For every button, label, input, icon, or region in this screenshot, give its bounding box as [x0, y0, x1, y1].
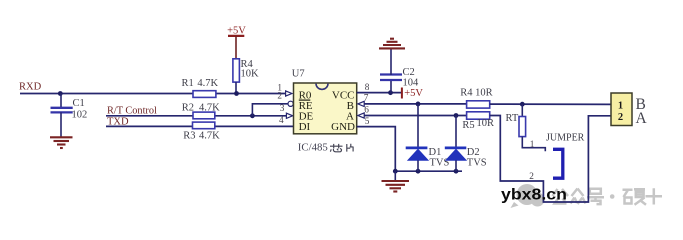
ground above C2 flipped [379, 39, 405, 49]
connector pin number 1 [618, 101, 623, 112]
label C1 [73, 98, 85, 109]
label D1 [429, 147, 442, 158]
svg-text:R/T Control: R/T Control [107, 106, 157, 117]
watermark middle dot [610, 194, 615, 199]
wire +5V to R4 [235, 36, 237, 59]
junction D1 on rail [416, 169, 421, 174]
svg-text:R5: R5 [462, 120, 474, 131]
junction R4 on RXD [234, 91, 239, 96]
IC U7 body [294, 83, 357, 134]
watermark chinese gong [553, 189, 569, 204]
wire RT bottom to jumper pin1 [522, 137, 545, 152]
wire pin6 A net to R5 10R [364, 115, 467, 117]
svg-text:RT: RT [506, 113, 519, 124]
svg-text:R2: R2 [182, 103, 194, 114]
label chip chinese xin [330, 144, 343, 152]
label R4 [241, 59, 254, 70]
svg-text:JUMPER: JUMPER [546, 132, 585, 143]
node RXD label [19, 82, 42, 93]
watermark chinese shi [646, 188, 663, 204]
svg-text:8: 8 [365, 83, 370, 93]
diode D1 TVS cathode bar [406, 146, 428, 149]
value 102 [72, 110, 88, 121]
pin number 3 [280, 104, 285, 114]
ground below rail [382, 171, 410, 191]
value R1 4.7K [197, 78, 218, 89]
wire C2 to ground [390, 49, 392, 75]
junction rail left [393, 169, 398, 174]
junction RT on B net [520, 102, 525, 107]
svg-text:102: 102 [72, 110, 88, 121]
wire C1 top lead [60, 94, 62, 108]
svg-text:U7: U7 [292, 68, 305, 79]
svg-text:2: 2 [618, 112, 623, 123]
pin name VCC [332, 89, 355, 101]
svg-text:2: 2 [277, 92, 282, 102]
svg-text:D2: D2 [467, 147, 480, 158]
label C2 [403, 67, 415, 78]
pin number 7 [364, 93, 369, 103]
resistor R4 10K [233, 59, 240, 82]
svg-text:C1: C1 [73, 98, 85, 109]
label D2 [467, 147, 480, 158]
value TVS of D1 [430, 158, 450, 169]
svg-text:RXD: RXD [19, 82, 42, 93]
ground below C1 [50, 137, 73, 148]
wire RT top lead [521, 104, 523, 116]
watermark ybx8.cn [501, 187, 567, 204]
pin 6 output triangle [358, 113, 364, 118]
value 104 [403, 78, 420, 89]
svg-text:A: A [636, 110, 648, 127]
pin 7 output triangle [358, 101, 364, 106]
svg-text:6: 6 [364, 105, 369, 115]
label IC/485 chip [298, 141, 328, 153]
svg-text:4: 4 [279, 116, 284, 126]
pin name DI [299, 121, 311, 133]
label RT [506, 113, 519, 124]
wire pin5 GND net [357, 127, 396, 172]
power +5V flag right [402, 88, 423, 100]
pin name R0 [299, 89, 312, 101]
U7 notch [316, 84, 328, 90]
pin number 4 [279, 116, 284, 126]
jumper pin label 1 [530, 140, 535, 150]
label chip chinese pian [347, 144, 354, 152]
wire A net down and around [490, 116, 611, 203]
svg-text:1: 1 [618, 101, 623, 112]
pin number 5 [365, 117, 370, 127]
resistor R3 [193, 122, 215, 129]
value 10K [241, 69, 260, 80]
label JUMPER [546, 132, 585, 143]
label R3 [183, 131, 195, 142]
watermark chinese ying [623, 189, 647, 205]
junction D2 on A net [454, 113, 459, 118]
resistor R2 [193, 112, 215, 119]
wire R/T control net [106, 115, 286, 117]
svg-text:1: 1 [530, 140, 535, 150]
wire C1 bottom lead [60, 112, 62, 136]
diode D2 TVS cathode bar [445, 146, 467, 149]
wire pin8 VCC net [357, 92, 402, 94]
junction D1 on B net [416, 102, 421, 107]
pin 2 bubble [288, 101, 293, 106]
svg-text:4.7K: 4.7K [199, 131, 220, 142]
wire TXD net [106, 125, 294, 127]
svg-text:IC/485: IC/485 [298, 141, 328, 153]
resistor R1 [193, 91, 216, 98]
resistor R5 10R [467, 112, 490, 119]
junction C2 on pin8 [388, 90, 393, 95]
svg-text:4.7K: 4.7K [199, 103, 220, 114]
svg-text:4.7K: 4.7K [197, 78, 218, 89]
diode D2 TVS triangle [446, 149, 466, 171]
wire C2 lower lead [390, 80, 392, 92]
node A label [636, 110, 648, 127]
pin 3 input triangle [286, 113, 292, 118]
resistor RT [519, 117, 526, 137]
svg-text:TVS: TVS [467, 158, 487, 169]
svg-text:ybx8.cn: ybx8.cn [501, 187, 567, 204]
power +5V top left [227, 26, 246, 37]
RE overline [299, 99, 311, 101]
wire RXD net [20, 93, 286, 95]
junction RE/DE tie [250, 113, 255, 118]
junction C1 on RXD [58, 91, 63, 96]
value R2 4.7K [199, 103, 220, 114]
label R4 10R [460, 87, 492, 98]
wire R4 bottom lead [235, 82, 237, 93]
wire D2 top lead [455, 116, 457, 148]
jumper pin label 2 [529, 172, 534, 182]
connector J1 body [611, 93, 632, 126]
svg-text:R4 10R: R4 10R [460, 87, 492, 98]
pin 1 input triangle [286, 91, 292, 96]
svg-text:10R: 10R [477, 118, 495, 129]
pin name A [346, 111, 354, 123]
pin name RE [299, 100, 313, 112]
svg-text:DI: DI [299, 121, 311, 133]
capacitor C1 [51, 108, 73, 113]
svg-text:C2: C2 [403, 67, 415, 78]
label R5 10R [462, 118, 494, 131]
wire B net to connector pin1 [490, 103, 611, 105]
wire branch to RE pin2 [252, 104, 288, 116]
svg-text:104: 104 [403, 78, 420, 89]
pin number 1 [277, 84, 282, 94]
watermark chinese zhong [571, 189, 586, 205]
svg-text:3: 3 [280, 104, 285, 114]
pin name GND [331, 121, 355, 133]
svg-text:D1: D1 [429, 147, 442, 158]
node R/T Control label [107, 106, 157, 117]
svg-text:10K: 10K [241, 69, 260, 80]
connector pin number 2 [618, 112, 623, 123]
svg-text:GND: GND [331, 121, 355, 133]
wire pin7 B net to R4 10R [364, 103, 467, 105]
pin name DE [299, 111, 314, 123]
wire ground rail [395, 170, 462, 172]
junction D2 on rail [454, 169, 459, 174]
label R1 [182, 78, 194, 89]
pin name B [347, 100, 354, 112]
node TXD label [107, 116, 129, 127]
svg-text:5: 5 [365, 117, 370, 127]
resistor R4 10R [467, 101, 490, 108]
pin number 2 [277, 92, 282, 102]
jumper JP bracket [553, 149, 563, 178]
node B label [636, 96, 646, 113]
svg-text:R3: R3 [183, 131, 195, 142]
watermark logo bubbles [511, 184, 545, 208]
pin number 8 [365, 83, 370, 93]
watermark chinese hao [587, 189, 604, 204]
label U7 [292, 68, 305, 79]
wire D1 top lead [417, 104, 419, 147]
value R3 4.7K [199, 131, 220, 142]
value TVS of D2 [467, 158, 487, 169]
label R2 [182, 103, 194, 114]
diode D1 TVS triangle [408, 149, 428, 171]
pin number 6 [364, 105, 369, 115]
svg-text:+5V: +5V [404, 88, 423, 99]
svg-text:R1: R1 [182, 78, 194, 89]
capacitor C2 [380, 75, 402, 81]
